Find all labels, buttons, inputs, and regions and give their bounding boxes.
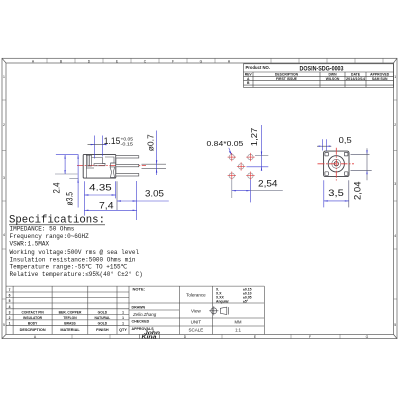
dimension 7.4 — [84, 209, 136, 211]
svg-text:UNIT: UNIT — [191, 320, 202, 325]
dimension 0,5 — [323, 139, 327, 150]
dimension 1,27 — [255, 155, 268, 157]
svg-text:DOSIN-SDG-0003: DOSIN-SDG-0003 — [300, 67, 345, 73]
svg-text:3: 3 — [394, 182, 396, 186]
svg-text:Tolerance: Tolerance — [186, 293, 206, 298]
svg-text:3: 3 — [9, 310, 11, 314]
svg-text:1: 1 — [122, 316, 124, 320]
svg-text:VSWR:1.5MAX: VSWR:1.5MAX — [10, 240, 50, 247]
svg-text:BODY: BODY — [28, 322, 38, 326]
svg-text:1: 1 — [3, 75, 5, 79]
svg-text:2,54: 2,54 — [258, 178, 278, 188]
frame zone ticks sides + numbers — [2, 100, 397, 299]
svg-text:CHECKED: CHECKED — [132, 320, 150, 324]
svg-text:FIRST ISSUE: FIRST ISSUE — [276, 77, 298, 81]
svg-text:WILSON: WILSON — [326, 77, 340, 81]
body internal details — [86, 154, 116, 178]
svg-text:1:1: 1:1 — [235, 328, 241, 333]
svg-text:1,27: 1,27 — [249, 127, 259, 146]
svg-text:SCALE: SCALE — [189, 328, 204, 333]
product/revision table — [244, 64, 394, 88]
svg-text:5: 5 — [9, 299, 11, 303]
corner holes — [325, 152, 348, 175]
svg-text:Temperature range:-55℃ TO +155: Temperature range:-55℃ TO +155℃ — [10, 264, 128, 271]
pins — [116, 156, 139, 176]
svg-text:GOLD: GOLD — [98, 310, 108, 314]
dimension ø3.5 (left) — [69, 178, 78, 180]
svg-text:Frequency range:0~6GHZ: Frequency range:0~6GHZ — [10, 233, 90, 240]
dimension 3.05 — [116, 181, 118, 210]
svg-text:INSULATOR: INSULATOR — [23, 316, 43, 320]
svg-text:Insulation resistance:5000 Ohm: Insulation resistance:5000 Ohms min — [10, 256, 136, 263]
frame zone letters top — [32, 59, 231, 63]
svg-text:NOTE:: NOTE: — [133, 287, 145, 292]
svg-text:REV: REV — [245, 72, 253, 76]
dimension 4.35 — [83, 181, 85, 215]
svg-text:5: 5 — [3, 323, 5, 327]
svg-text:QTY: QTY — [119, 328, 127, 332]
svg-text:-0.15: -0.15 — [121, 141, 134, 146]
center circles — [328, 156, 344, 172]
red crosshair — [318, 148, 355, 181]
svg-text:1: 1 — [9, 322, 11, 326]
Kina logo box — [140, 334, 160, 338]
svg-text:F: F — [172, 59, 174, 63]
svg-text:1.15: 1.15 — [104, 136, 121, 146]
svg-text:APPROVED: APPROVED — [370, 72, 390, 76]
svg-text:Zelin.Zhang: Zelin.Zhang — [132, 312, 157, 317]
svg-text:MATERIAL: MATERIAL — [60, 328, 80, 332]
svg-text:3,5: 3,5 — [328, 188, 344, 198]
svg-text:0,5: 0,5 — [339, 135, 352, 145]
svg-text:CONTACT PIN: CONTACT PIN — [21, 310, 44, 314]
svg-text:Angular: Angular — [216, 299, 229, 303]
svg-text:TEFLON: TEFLON — [63, 316, 77, 320]
centerline — [77, 165, 146, 167]
svg-text:Relative temperature:≤95%(40°: Relative temperature:≤95%(40° C±2° C) — [10, 271, 143, 278]
svg-text:BER. COPPER: BER. COPPER — [59, 310, 82, 314]
dimension 2,04 — [351, 153, 370, 155]
svg-text:7,4: 7,4 — [99, 201, 114, 211]
projection symbol — [209, 306, 228, 315]
svg-text:SAM SUN: SAM SUN — [372, 77, 388, 81]
svg-text:ø3.5: ø3.5 — [65, 192, 75, 206]
dimension 3,5 — [323, 180, 325, 207]
svg-text:DWN: DWN — [328, 72, 337, 76]
svg-text:DESCRIPTION: DESCRIPTION — [20, 328, 46, 332]
svg-text:4: 4 — [9, 305, 11, 309]
svg-text:4.35: 4.35 — [89, 182, 112, 192]
svg-text:1: 1 — [394, 75, 396, 79]
svg-text:Product NO.: Product NO. — [246, 65, 270, 70]
svg-text:DESCRIPTION: DESCRIPTION — [275, 72, 299, 76]
svg-text:2014/10/14: 2014/10/14 — [346, 77, 365, 81]
svg-text:G: G — [366, 335, 369, 339]
svg-text:NATURAL: NATURAL — [95, 316, 111, 320]
svg-text:6: 6 — [9, 294, 11, 298]
frame zone ticks bottom + letters — [72, 334, 340, 338]
svg-text:4: 4 — [3, 233, 5, 237]
svg-text:Kina: Kina — [142, 335, 157, 341]
svg-text:2,04: 2,04 — [352, 182, 362, 201]
svg-text:View: View — [191, 308, 201, 313]
svg-text:DRAWN: DRAWN — [132, 306, 146, 310]
svg-text:7: 7 — [9, 288, 11, 292]
svg-text:4: 4 — [394, 234, 396, 238]
svg-text:G: G — [200, 59, 203, 63]
svg-text:5: 5 — [394, 323, 396, 327]
svg-text:Working voltage:500V rms @ sea: Working voltage:500V rms @ sea level — [10, 249, 140, 256]
svg-text:1: 1 — [122, 322, 124, 326]
svg-text:3.05: 3.05 — [145, 189, 164, 199]
svg-text:IMPEDANCE: 50 Ohms: IMPEDANCE: 50 Ohms — [10, 226, 75, 233]
svg-text:2: 2 — [3, 123, 5, 127]
dimension 2.4 (left) — [56, 154, 79, 156]
svg-text:0.84*0.05: 0.84*0.05 — [207, 141, 244, 148]
svg-text:2.4: 2.4 — [51, 183, 61, 194]
svg-text:2: 2 — [9, 316, 11, 320]
svg-text:BRASS: BRASS — [64, 322, 76, 326]
dimension 1.15 +0.05/-0.15 — [95, 136, 103, 159]
svg-text:DATE: DATE — [351, 72, 361, 76]
svg-text:F: F — [309, 335, 311, 339]
pads — [228, 153, 255, 180]
svg-text:3: 3 — [3, 176, 5, 180]
svg-text:GOLD: GOLD — [98, 322, 108, 326]
svg-text:MM: MM — [235, 320, 242, 325]
svg-text:2: 2 — [394, 123, 396, 127]
dimension 2,54 — [231, 180, 233, 198]
svg-text:1: 1 — [122, 310, 124, 314]
svg-text:±5°: ±5° — [243, 299, 249, 303]
frame zone ticks top — [47, 58, 383, 63]
svg-text:FINISH: FINISH — [96, 328, 109, 332]
dimension ø0.7 — [142, 164, 167, 168]
svg-text:ø0.7: ø0.7 — [147, 134, 156, 151]
flange — [324, 151, 349, 177]
connector body outline — [83, 154, 116, 178]
